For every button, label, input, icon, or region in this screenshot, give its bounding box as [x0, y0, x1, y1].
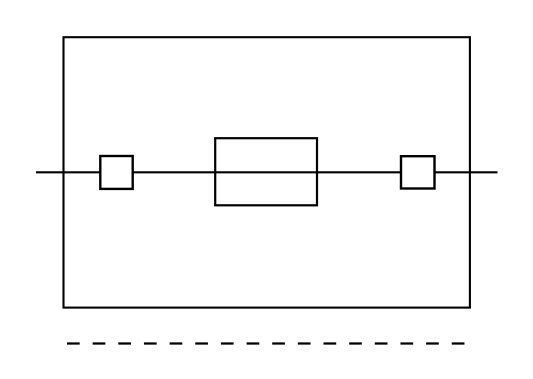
enclosure outline (terminal block body)	[64, 37, 470, 307]
dashed separator line (mounting rail marker)	[67, 342, 465, 344]
wire: internal conductor through fuse	[133, 171, 401, 173]
wire: left lead	[36, 171, 100, 173]
fuse body	[215, 138, 317, 205]
terminal clamp contact (left)	[100, 156, 132, 189]
wire: right lead	[435, 171, 498, 173]
terminal clamp contact (right)	[401, 156, 435, 188]
